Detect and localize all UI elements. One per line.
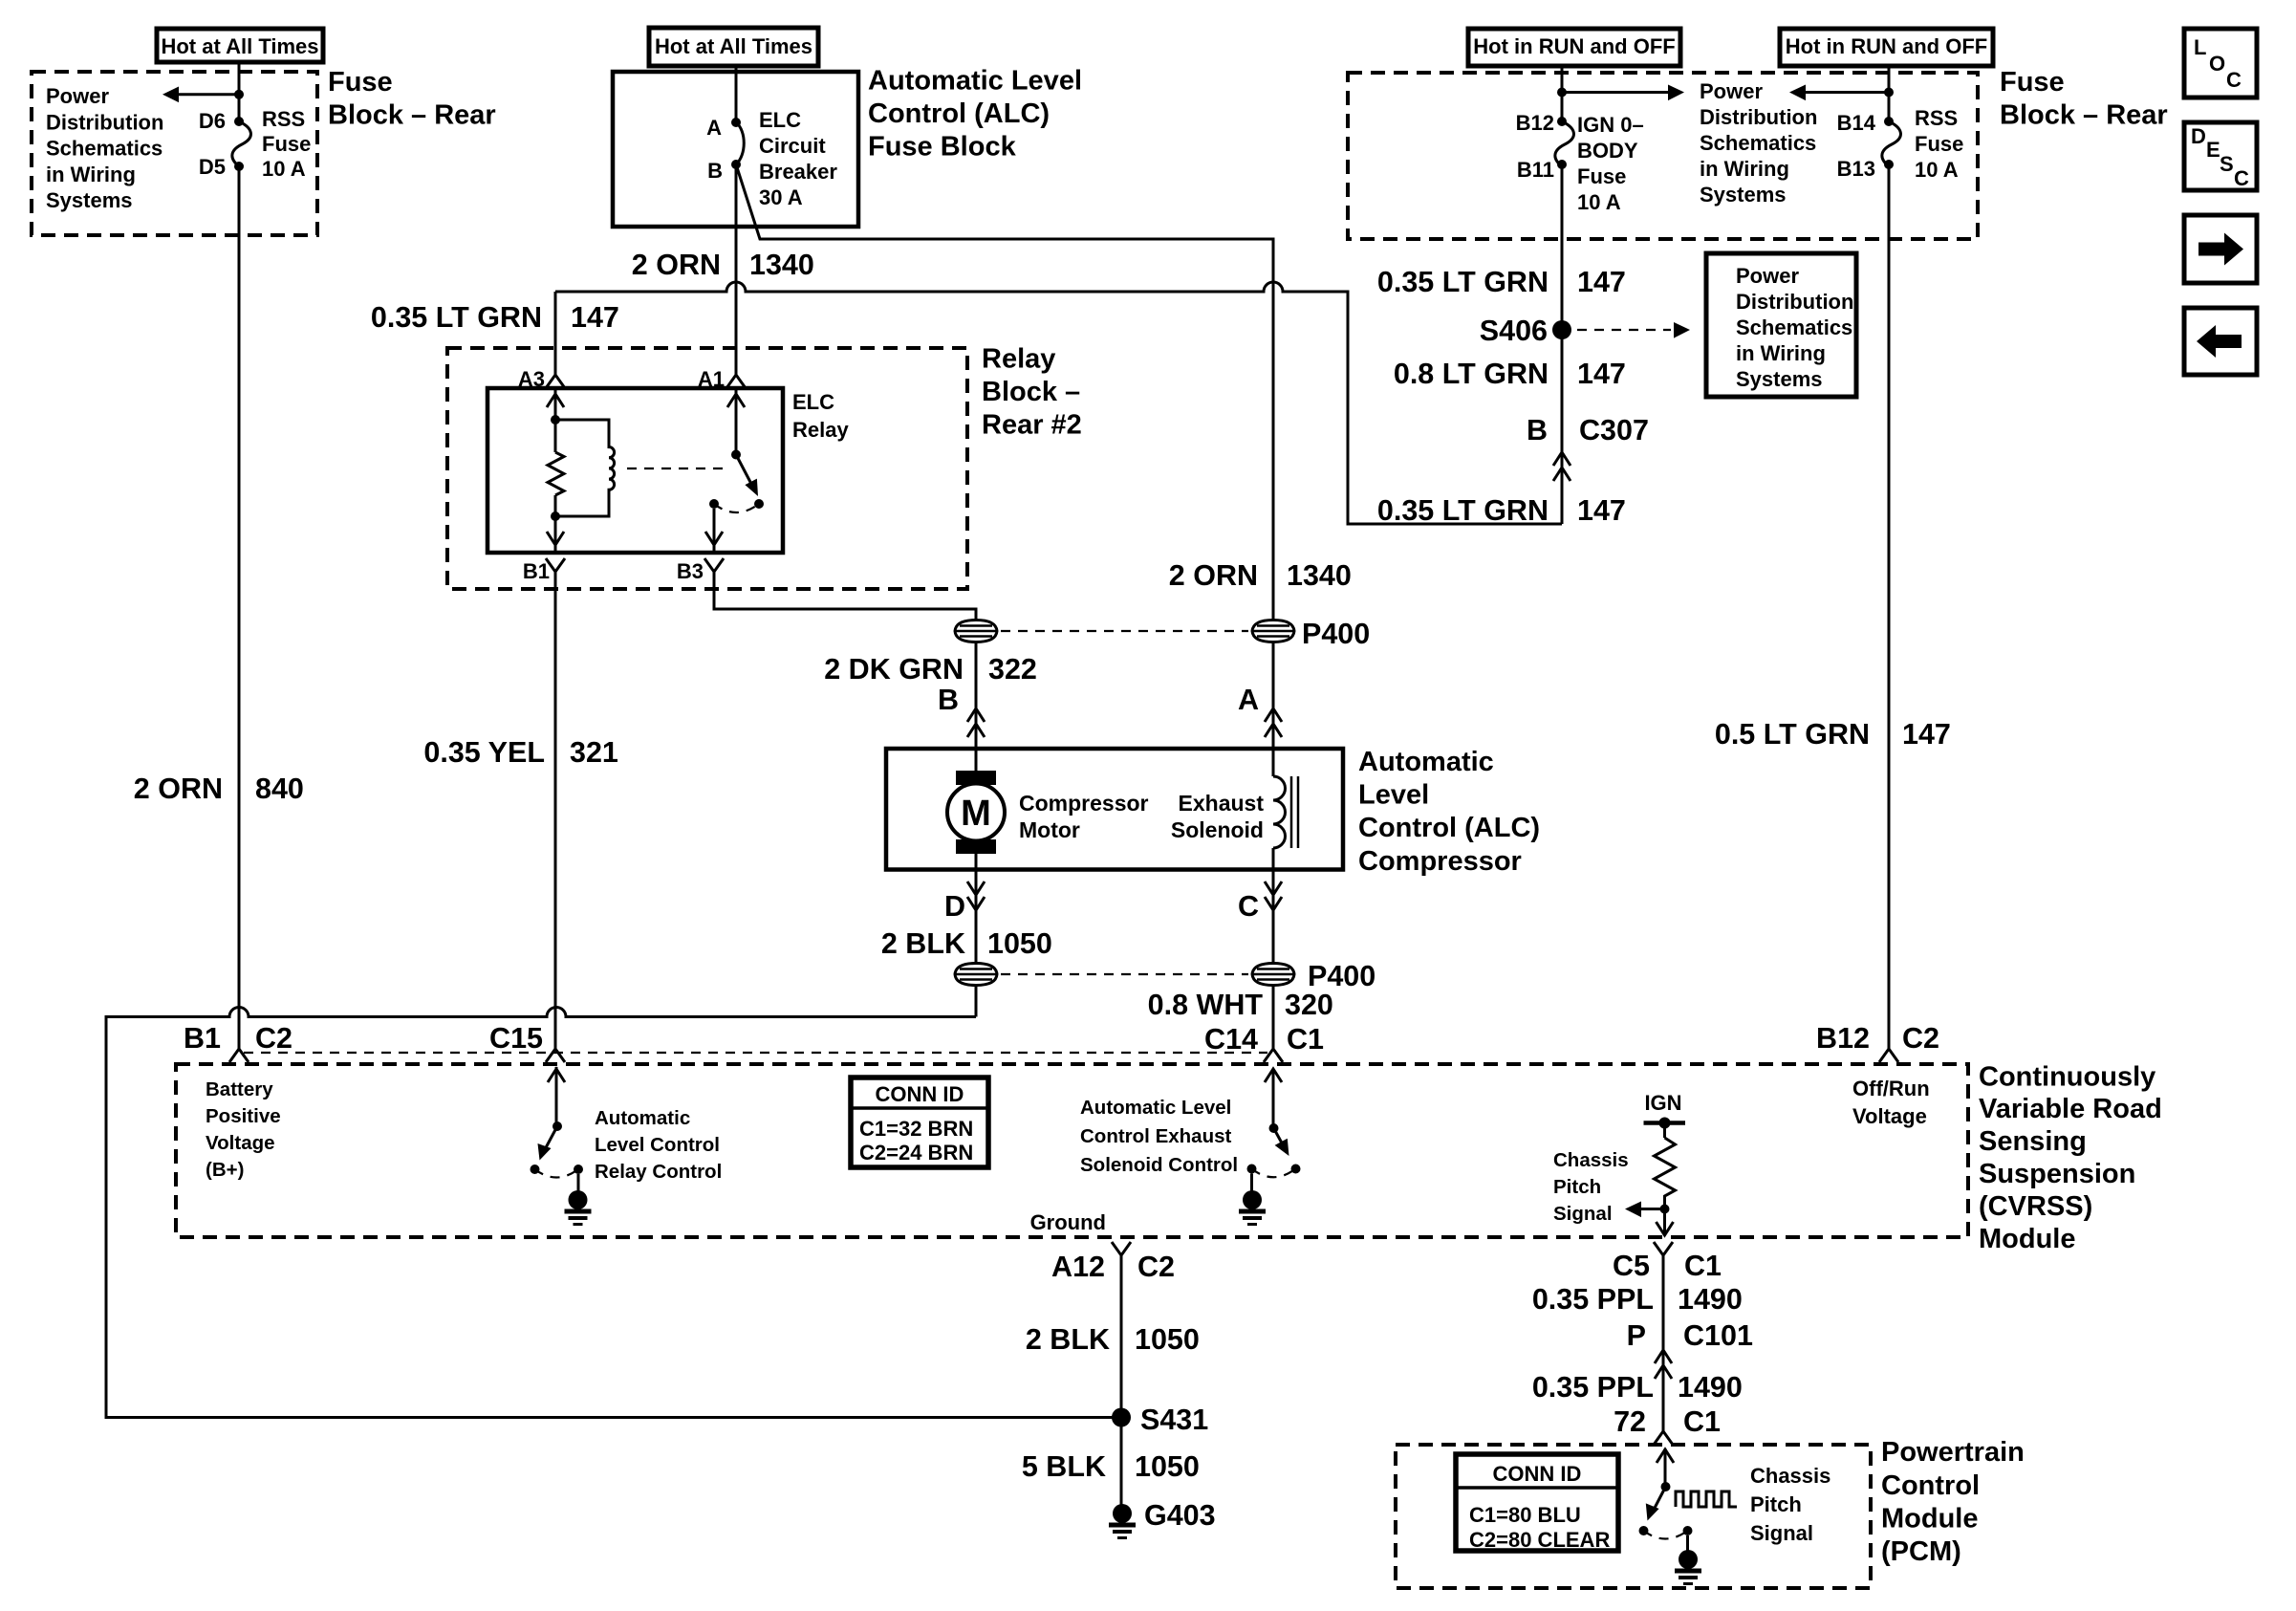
svg-text:Control (ALC): Control (ALC) <box>868 98 1050 129</box>
svg-text:Positive: Positive <box>206 1105 281 1127</box>
svg-text:10 A: 10 A <box>262 157 306 181</box>
svg-text:Schematics: Schematics <box>46 137 162 161</box>
svg-text:Breaker: Breaker <box>759 160 837 184</box>
svg-text:Battery: Battery <box>206 1078 273 1100</box>
svg-text:Pitch: Pitch <box>1553 1176 1601 1198</box>
svg-text:ELC: ELC <box>792 390 834 414</box>
svg-text:Compressor: Compressor <box>1019 791 1149 816</box>
svg-text:147: 147 <box>1902 718 1951 751</box>
svg-text:147: 147 <box>571 301 619 334</box>
svg-text:Rear #2: Rear #2 <box>982 410 1082 441</box>
svg-text:Automatic Level: Automatic Level <box>868 66 1082 97</box>
svg-text:1340: 1340 <box>749 249 814 281</box>
svg-text:Suspension: Suspension <box>1979 1159 2135 1189</box>
svg-text:M: M <box>961 794 991 834</box>
svg-text:Motor: Motor <box>1019 817 1080 842</box>
svg-text:Hot at All Times: Hot at All Times <box>161 34 318 58</box>
svg-text:10 A: 10 A <box>1577 190 1621 214</box>
svg-text:B13: B13 <box>1837 157 1875 181</box>
svg-text:30 A: 30 A <box>759 185 803 209</box>
svg-text:in Wiring: in Wiring <box>1736 341 1826 365</box>
svg-text:2 DK GRN: 2 DK GRN <box>824 653 964 686</box>
svg-text:Power: Power <box>1700 79 1763 103</box>
svg-text:G403: G403 <box>1144 1499 1216 1532</box>
svg-text:C2=24 BRN: C2=24 BRN <box>859 1141 973 1165</box>
svg-text:0.35 PPL: 0.35 PPL <box>1532 1283 1654 1316</box>
svg-text:Relay: Relay <box>792 418 849 442</box>
svg-text:1050: 1050 <box>987 927 1052 960</box>
svg-text:B11: B11 <box>1517 158 1554 182</box>
svg-text:C15: C15 <box>489 1022 543 1055</box>
svg-text:A3: A3 <box>518 367 545 391</box>
svg-text:0.8 WHT: 0.8 WHT <box>1148 989 1264 1021</box>
svg-text:C307: C307 <box>1579 414 1649 446</box>
svg-text:P400: P400 <box>1302 618 1370 650</box>
svg-text:C: C <box>1238 890 1259 923</box>
svg-text:A12: A12 <box>1051 1251 1105 1283</box>
svg-text:S406: S406 <box>1480 315 1548 347</box>
svg-text:ELC: ELC <box>759 108 801 132</box>
svg-text:Automatic: Automatic <box>595 1107 690 1129</box>
svg-text:L: L <box>2194 35 2206 59</box>
svg-text:C1: C1 <box>1683 1405 1721 1438</box>
svg-text:Circuit: Circuit <box>759 134 826 158</box>
svg-text:Solenoid: Solenoid <box>1171 817 1264 842</box>
svg-text:Relay: Relay <box>982 344 1055 375</box>
svg-text:Module: Module <box>1979 1224 2076 1254</box>
svg-text:P: P <box>1627 1319 1646 1352</box>
svg-text:D6: D6 <box>199 109 226 133</box>
svg-text:Schematics: Schematics <box>1736 316 1852 339</box>
svg-text:Signal: Signal <box>1750 1521 1813 1545</box>
svg-text:322: 322 <box>988 653 1037 686</box>
svg-text:147: 147 <box>1577 494 1626 527</box>
svg-text:2 ORN: 2 ORN <box>134 773 223 805</box>
svg-text:in Wiring: in Wiring <box>46 163 136 186</box>
svg-text:72: 72 <box>1614 1405 1646 1438</box>
svg-text:Control Exhaust: Control Exhaust <box>1080 1125 1231 1147</box>
svg-text:(PCM): (PCM) <box>1881 1536 1961 1567</box>
svg-text:0.35 LT GRN: 0.35 LT GRN <box>1377 494 1549 527</box>
svg-text:Fuse: Fuse <box>328 67 393 98</box>
svg-text:Fuse: Fuse <box>1915 132 1963 156</box>
svg-text:Power: Power <box>1736 264 1799 288</box>
svg-text:Distribution: Distribution <box>46 110 163 134</box>
svg-text:Block –: Block – <box>982 377 1080 407</box>
svg-text:Variable Road: Variable Road <box>1979 1094 2162 1124</box>
svg-text:Solenoid Control: Solenoid Control <box>1080 1154 1238 1176</box>
svg-text:A: A <box>706 116 722 140</box>
svg-text:S: S <box>2220 152 2234 176</box>
svg-text:Sensing: Sensing <box>1979 1126 2087 1157</box>
svg-text:2 ORN: 2 ORN <box>632 249 721 281</box>
svg-text:C1: C1 <box>1287 1023 1324 1056</box>
svg-text:B1: B1 <box>523 559 550 583</box>
svg-text:1050: 1050 <box>1135 1323 1200 1356</box>
svg-text:C5: C5 <box>1613 1250 1650 1282</box>
svg-text:147: 147 <box>1577 266 1626 298</box>
svg-text:A1: A1 <box>698 367 725 391</box>
svg-text:Exhaust: Exhaust <box>1179 791 1265 816</box>
svg-text:Compressor: Compressor <box>1358 846 1522 877</box>
svg-text:E: E <box>2206 138 2220 162</box>
svg-text:Ground: Ground <box>1030 1210 1106 1234</box>
svg-text:C: C <box>2234 166 2249 190</box>
svg-text:0.35 LT GRN: 0.35 LT GRN <box>1377 266 1549 298</box>
svg-text:0.8 LT GRN: 0.8 LT GRN <box>1394 358 1549 390</box>
svg-text:Control: Control <box>1881 1470 1980 1501</box>
svg-text:C1=32 BRN: C1=32 BRN <box>859 1117 973 1141</box>
svg-text:C14: C14 <box>1204 1023 1258 1056</box>
svg-text:C101: C101 <box>1683 1319 1753 1352</box>
svg-text:C2: C2 <box>255 1022 292 1055</box>
svg-text:320: 320 <box>1285 989 1333 1021</box>
svg-text:A: A <box>1238 684 1259 716</box>
svg-text:0.35 LT GRN: 0.35 LT GRN <box>371 301 542 334</box>
svg-text:C1=80 BLU: C1=80 BLU <box>1469 1503 1581 1527</box>
svg-text:Schematics: Schematics <box>1700 131 1816 155</box>
svg-text:147: 147 <box>1577 358 1626 390</box>
svg-text:B: B <box>1527 414 1548 446</box>
svg-text:1490: 1490 <box>1678 1283 1743 1316</box>
svg-text:0.5 LT GRN: 0.5 LT GRN <box>1715 718 1870 751</box>
svg-text:10 A: 10 A <box>1915 158 1959 182</box>
svg-text:Hot in RUN and OFF: Hot in RUN and OFF <box>1473 34 1675 58</box>
svg-text:Fuse: Fuse <box>2000 67 2065 98</box>
svg-text:P400: P400 <box>1308 960 1375 992</box>
svg-text:Hot in RUN and OFF: Hot in RUN and OFF <box>1786 34 1987 58</box>
svg-text:Systems: Systems <box>1700 183 1787 207</box>
svg-text:C1: C1 <box>1684 1250 1722 1282</box>
svg-text:Voltage: Voltage <box>206 1132 275 1154</box>
svg-text:Automatic: Automatic <box>1358 747 1494 777</box>
svg-text:(B+): (B+) <box>206 1159 244 1181</box>
svg-text:1340: 1340 <box>1287 559 1352 592</box>
svg-text:Relay Control: Relay Control <box>595 1161 722 1183</box>
svg-text:Block – Rear: Block – Rear <box>2000 100 2168 131</box>
svg-text:D: D <box>2191 124 2206 148</box>
svg-text:840: 840 <box>255 773 304 805</box>
svg-text:Automatic Level: Automatic Level <box>1080 1097 1231 1119</box>
svg-text:B: B <box>707 159 723 183</box>
svg-text:Systems: Systems <box>46 188 133 212</box>
svg-text:in Wiring: in Wiring <box>1700 157 1789 181</box>
svg-text:D5: D5 <box>199 155 226 179</box>
svg-text:Off/Run: Off/Run <box>1852 1077 1930 1100</box>
svg-text:BODY: BODY <box>1577 139 1638 163</box>
svg-text:Distribution: Distribution <box>1736 290 1853 314</box>
svg-text:IGN 0–: IGN 0– <box>1577 113 1644 137</box>
svg-text:Voltage: Voltage <box>1852 1104 1927 1128</box>
svg-text:IGN: IGN <box>1644 1091 1681 1115</box>
svg-text:5 BLK: 5 BLK <box>1022 1450 1106 1483</box>
svg-text:2 ORN: 2 ORN <box>1169 559 1258 592</box>
svg-text:RSS: RSS <box>262 107 305 131</box>
svg-text:1050: 1050 <box>1135 1450 1200 1483</box>
svg-text:O: O <box>2209 52 2225 76</box>
svg-text:C: C <box>2226 68 2242 92</box>
svg-text:Hot at All Times: Hot at All Times <box>655 34 812 58</box>
svg-text:Level: Level <box>1358 780 1429 811</box>
svg-text:Pitch: Pitch <box>1750 1492 1802 1516</box>
svg-text:CONN ID: CONN ID <box>1493 1462 1582 1486</box>
svg-text:2 BLK: 2 BLK <box>1026 1323 1110 1356</box>
svg-text:Fuse Block: Fuse Block <box>868 132 1017 163</box>
svg-text:RSS: RSS <box>1915 106 1958 130</box>
svg-text:Control (ALC): Control (ALC) <box>1358 813 1540 843</box>
svg-text:Level Control: Level Control <box>595 1134 720 1156</box>
svg-text:Signal: Signal <box>1553 1203 1613 1225</box>
svg-text:CONN ID: CONN ID <box>876 1082 964 1106</box>
svg-text:D: D <box>944 890 965 923</box>
svg-text:Continuously: Continuously <box>1979 1061 2155 1092</box>
svg-text:Distribution: Distribution <box>1700 105 1817 129</box>
svg-text:S431: S431 <box>1140 1404 1208 1436</box>
svg-text:Module: Module <box>1881 1504 1979 1535</box>
svg-text:Power: Power <box>46 84 109 108</box>
svg-text:Fuse: Fuse <box>262 132 311 156</box>
svg-text:C2=80 CLEAR: C2=80 CLEAR <box>1469 1528 1610 1552</box>
svg-text:0.35 PPL: 0.35 PPL <box>1532 1371 1654 1404</box>
svg-text:1490: 1490 <box>1678 1371 1743 1404</box>
svg-text:B12: B12 <box>1816 1022 1870 1055</box>
svg-text:B3: B3 <box>677 559 704 583</box>
svg-text:C2: C2 <box>1902 1022 1939 1055</box>
svg-text:Powertrain: Powertrain <box>1881 1437 2025 1468</box>
svg-text:Systems: Systems <box>1736 367 1823 391</box>
svg-text:Chassis: Chassis <box>1553 1149 1629 1171</box>
svg-text:B14: B14 <box>1837 111 1876 135</box>
svg-text:B1: B1 <box>184 1022 221 1055</box>
svg-text:321: 321 <box>570 736 618 769</box>
svg-text:Block – Rear: Block – Rear <box>328 100 496 131</box>
svg-text:B12: B12 <box>1516 111 1554 135</box>
svg-text:2 BLK: 2 BLK <box>881 927 965 960</box>
svg-text:0.35 YEL: 0.35 YEL <box>423 736 545 769</box>
svg-text:C2: C2 <box>1137 1251 1175 1283</box>
svg-text:Chassis: Chassis <box>1750 1464 1830 1488</box>
svg-text:Fuse: Fuse <box>1577 164 1626 188</box>
svg-text:(CVRSS): (CVRSS) <box>1979 1191 2092 1222</box>
svg-text:B: B <box>938 684 959 716</box>
